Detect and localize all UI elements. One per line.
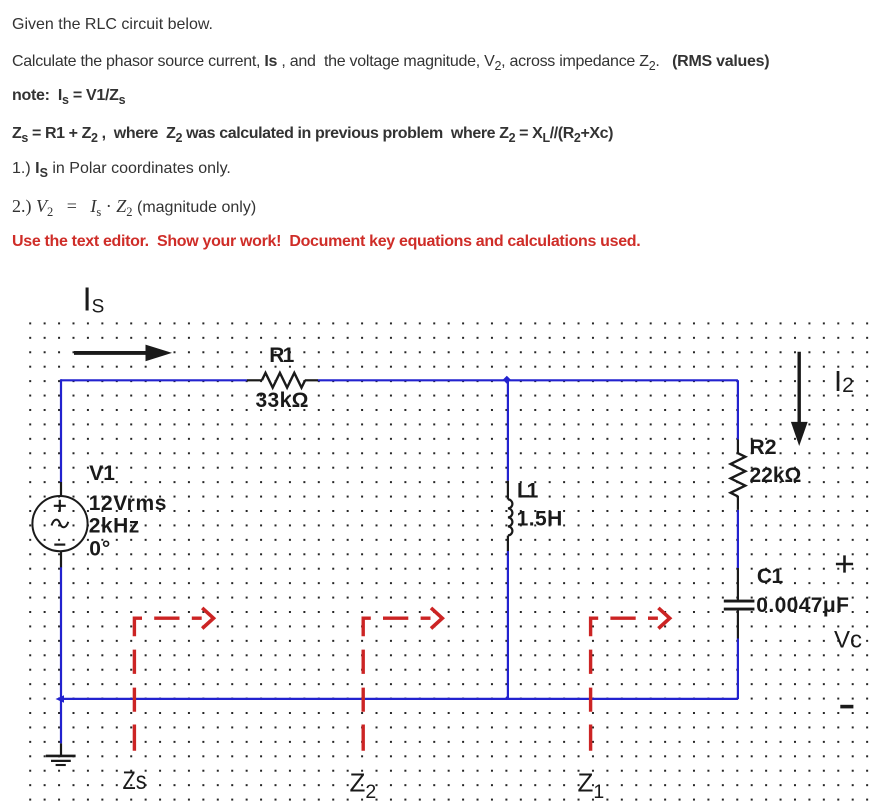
svg-text:L1: L1 xyxy=(517,479,539,502)
svg-text:R2: R2 xyxy=(750,436,777,459)
svg-text:C1: C1 xyxy=(757,565,784,588)
svg-text:Vc: Vc xyxy=(834,627,862,654)
svg-text:0°: 0° xyxy=(89,537,110,560)
svg-text:Zs: Zs xyxy=(123,767,147,795)
svg-text:R1: R1 xyxy=(269,344,294,367)
svg-text:0.0047μF: 0.0047μF xyxy=(756,594,849,617)
svg-text:12Vrms: 12Vrms xyxy=(89,492,167,515)
svg-text:33kΩ: 33kΩ xyxy=(256,389,309,412)
svg-text:22kΩ: 22kΩ xyxy=(750,464,802,487)
svg-text:1.5H: 1.5H xyxy=(517,507,563,530)
svg-text:V1: V1 xyxy=(89,462,115,485)
svg-text:IS: IS xyxy=(83,281,105,318)
svg-text:2kHz: 2kHz xyxy=(89,515,140,538)
